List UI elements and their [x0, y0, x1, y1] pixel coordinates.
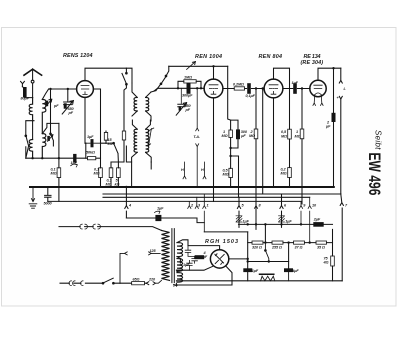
tube V1 anode wire right [93, 89, 100, 143]
anode coupling: wire V2 right [223, 88, 264, 90]
psu top rail R1 [239, 223, 333, 225]
tube V4 anode top wire [318, 68, 341, 80]
terminal jack 5 [237, 197, 240, 227]
grid wire into V2 [154, 88, 204, 91]
mains wire upper [59, 227, 162, 231]
resistor column a under switch [100, 158, 102, 187]
loudspeaker jack lower [339, 96, 342, 194]
rail y197.3 [103, 196, 310, 198]
resistor 255ohm [272, 241, 283, 244]
potentiometer zigzag [260, 273, 274, 275]
svg-text:65Ω: 65Ω [133, 278, 140, 282]
wire line A left end down [85, 143, 87, 158]
capacitor blob V3-V4 [293, 85, 297, 92]
terminal jack 2 [188, 201, 191, 208]
wire coil secondary top to grid line [42, 89, 48, 99]
tube V2 REN1004 envelope [204, 79, 223, 98]
antenna coil T1 primary [29, 98, 32, 121]
wire y261.5 [248, 261, 289, 263]
resistor 0.1M under V1 [58, 123, 60, 201]
wire ift lower bottoms [126, 146, 151, 187]
bracket wire around tuned coil [26, 121, 34, 159]
svg-text:1µF: 1µF [157, 207, 164, 211]
resistor 0.5M bias bottom [229, 168, 233, 177]
capacitor 4uF blob mid [286, 268, 291, 272]
svg-text:1µF: 1µF [87, 135, 94, 139]
svg-text:4Ω: 4Ω [323, 261, 329, 265]
IF transformer lower right winding [146, 129, 149, 152]
tube V5 RGH1503 envelope [210, 250, 228, 268]
switch S2 above resistors [111, 143, 118, 168]
svg-text:MΩ: MΩ [281, 172, 287, 176]
terminal jack 6 [280, 194, 283, 227]
variable arrow on chassis blob [71, 164, 78, 167]
capacitor 2uF series blob on R1 [316, 222, 322, 227]
capacitor blob in coupling line [247, 85, 251, 92]
IF transformer lower left winding [134, 129, 137, 152]
rectifier bottom loop [176, 267, 232, 285]
terminal jack 1 [203, 194, 206, 232]
svg-text:Seibt: Seibt [374, 130, 383, 150]
grid wire to tube V1 [49, 88, 77, 90]
svg-text:300µF: 300µF [182, 93, 193, 97]
rail y201.4 [48, 200, 302, 202]
resistor 320ohm [252, 241, 263, 244]
trimmer capacitor arrow 1 [45, 99, 51, 107]
capacitor 300uF blob in grid line [187, 85, 191, 92]
tube V3 electrodes [269, 85, 278, 94]
svg-text:320 Ω: 320 Ω [252, 245, 262, 249]
svg-text:pF: pF [185, 108, 191, 112]
resistor vertical right psu [332, 229, 334, 280]
wire upper ift left top [126, 68, 132, 83]
capacitor 1uF hatched below jack6 [279, 216, 285, 222]
wire V3 to V4 grid [283, 88, 310, 90]
wire switch S1 down [111, 84, 126, 162]
capacitor 300uF bias blob [236, 131, 240, 137]
mains switch [103, 278, 120, 283]
trimmer arrow on L2 [48, 135, 53, 142]
tube V1 RENS1204 envelope [77, 81, 94, 98]
mains wire lower [60, 282, 103, 284]
rectifier filament left wire [176, 266, 212, 270]
resistor 65ohm in mains [120, 282, 146, 284]
wire switch S3 to top rail 2 [166, 66, 169, 76]
svg-text:1: 1 [207, 204, 209, 208]
svg-text:REN 1004: REN 1004 [195, 54, 222, 60]
branch to jack 5 column [231, 156, 239, 197]
tube V4 filament legs [313, 95, 323, 106]
resistor 1M bias [229, 130, 233, 138]
wire top rail 2 right end down [228, 66, 231, 187]
svg-text:µF: µF [240, 134, 246, 138]
resistor 0.5M right of V3 [288, 129, 292, 139]
TA pickup terminals [196, 88, 199, 187]
tube V2 electrodes [209, 85, 218, 94]
terminal jack 10 [308, 197, 311, 242]
svg-text:(RE 304): (RE 304) [301, 60, 324, 66]
tube V3 cathode down [273, 98, 275, 187]
svg-text:35 Ω: 35 Ω [317, 245, 325, 249]
ground symbol [29, 187, 37, 208]
node top right [333, 68, 334, 69]
tube V1 electrodes [81, 86, 89, 95]
antenna coil T1 secondary [42, 99, 46, 133]
tube V3 REN804 envelope [264, 79, 283, 98]
svg-text:REN 804: REN 804 [259, 54, 283, 60]
svg-text:MΩ: MΩ [281, 134, 287, 138]
IF transformer lower leads [132, 120, 152, 162]
chassis line left [26, 157, 88, 159]
rectifier anode feed [188, 246, 220, 250]
resistor 50k horizontal [96, 157, 101, 159]
mains plug pair 1 [80, 224, 88, 229]
resistor column b [110, 178, 112, 187]
wire 50k right lead down [100, 143, 102, 158]
capacitor 5000 to ground [45, 187, 51, 201]
wire x265.4 rail to chain [264, 224, 266, 242]
svg-text:4µF: 4µF [291, 269, 299, 273]
wire grid drop x262.7 [262, 89, 264, 195]
secondary winding 3 [177, 273, 183, 283]
svg-text:H: H [201, 168, 204, 172]
wire V1 cathode down [84, 97, 86, 143]
capacitor blob in cluster [197, 255, 203, 259]
rectifier cathode wire right [229, 232, 248, 268]
resistor 0.2M in coupling line [234, 87, 244, 90]
svg-text:37 Ω: 37 Ω [295, 245, 303, 249]
tuned coil L2 right winding [42, 134, 46, 159]
svg-text:µF: µF [202, 255, 208, 259]
rail y194 [103, 193, 341, 195]
capacitor 80pF blob [23, 89, 27, 96]
tap 125 jack pair [120, 252, 160, 283]
trimmer capacitor 650pF drop [67, 89, 69, 101]
mains plug pair 2 [93, 224, 101, 229]
svg-text:2µF: 2µF [313, 218, 321, 222]
switch S1 top right of V1 [122, 68, 126, 84]
capacitor 1uF blob on y218 [155, 215, 161, 221]
capacitor 1uF blob on x247.7 [245, 268, 250, 272]
terminal jack 8 [254, 206, 257, 209]
svg-text:1µF: 1µF [243, 220, 250, 224]
svg-text:1µF: 1µF [285, 220, 292, 224]
terminal jack 7 [340, 194, 343, 281]
svg-text:1MΩ: 1MΩ [184, 75, 192, 79]
antenna terminal circle [31, 80, 34, 83]
loudspeaker jack upper [339, 68, 342, 83]
svg-text:1µF: 1µF [71, 161, 78, 165]
svg-text:1µF: 1µF [183, 263, 190, 267]
tube V2 cathode down [213, 98, 215, 201]
wire upper ift right top to switch S3 [151, 76, 166, 92]
trimmer 650pF below grid line [180, 88, 182, 103]
svg-text:kΩ: kΩ [108, 142, 113, 146]
svg-text:MΩ: MΩ [249, 134, 255, 138]
svg-text:pF: pF [53, 104, 59, 108]
trimmer capacitor 650pF symbol [62, 101, 73, 114]
resistor vertical x106 [105, 131, 107, 143]
band switch lever in bracket [26, 121, 33, 146]
svg-text:µF: µF [325, 125, 331, 129]
resistor 35ohm [316, 241, 327, 244]
svg-text:MΩ: MΩ [223, 173, 229, 177]
switch below chain [265, 243, 268, 262]
svg-text:MΩ: MΩ [94, 172, 100, 176]
tube V2 top stub [213, 66, 215, 79]
svg-text:MΩ: MΩ [51, 172, 57, 176]
blob capacitor on chassis line [73, 156, 76, 161]
svg-text:80pF: 80pF [21, 97, 30, 101]
IF transformer upper leads [132, 83, 151, 121]
svg-text:0,1µF: 0,1µF [246, 94, 256, 98]
svg-text:220: 220 [148, 278, 156, 282]
secondary leads to rectifier [176, 240, 188, 286]
svg-text:RGH 1503: RGH 1503 [205, 239, 238, 245]
tube V5 electrodes [215, 254, 224, 265]
svg-text:1µF: 1µF [292, 81, 299, 85]
transformer core lines [172, 229, 174, 283]
earth hook terminal [21, 81, 25, 86]
wire line A extension [85, 142, 106, 144]
capacitor 4uF plates [185, 246, 194, 259]
transformer primary zigzag [162, 230, 170, 280]
tube V1 top cap wire [85, 68, 126, 80]
terminal jack 9 [299, 206, 302, 225]
transformer bottom clips [173, 284, 176, 287]
mains plug pair 3 [69, 281, 83, 286]
tap 220 jack pair [146, 280, 161, 284]
tube V4 RE134 envelope [310, 80, 326, 96]
psu bottom rail [176, 280, 342, 282]
svg-text:EW 496: EW 496 [365, 153, 383, 196]
tuned coil L2 left winding [29, 140, 32, 159]
resistor 1M bridge over capacitor [178, 81, 201, 88]
resistor 0.2M lower right column [288, 168, 292, 178]
svg-text:1µF: 1µF [252, 269, 259, 273]
trimmer arrow on top rail 2 [187, 62, 196, 70]
arrow over 1uF blob [154, 211, 160, 214]
svg-text:T.A.: T.A. [193, 135, 200, 139]
wire L2 top lead to resistor column [42, 123, 59, 133]
wire line A to switch S2 [106, 142, 114, 144]
resistor 37ohm [294, 241, 305, 244]
resistor 1M under V4 grid [301, 89, 303, 205]
svg-text:MΩ: MΩ [106, 182, 112, 186]
resistor column c [117, 162, 119, 187]
terminal jack 3 [195, 197, 198, 208]
tie bottom of bias network [231, 137, 238, 148]
trimmer arrow through lower ift [148, 128, 154, 146]
heater hook terminals H [183, 162, 206, 179]
wire chain junction drops [288, 243, 290, 269]
tube V4 electrodes triode [314, 85, 322, 94]
trimmer capacitor drop 1 [51, 89, 54, 146]
svg-text:50kΩ: 50kΩ [86, 151, 95, 155]
wire y218.5 step to psu [189, 218, 248, 232]
node grid junction 1 [50, 88, 51, 89]
top rail 2 with trimmer [169, 65, 228, 67]
secondary winding 1 [177, 243, 183, 257]
secondary winding 2 [177, 259, 183, 272]
svg-text:MΩ: MΩ [295, 134, 301, 138]
capacitor 1uF plates lower [187, 259, 198, 271]
svg-text:5000: 5000 [44, 202, 53, 206]
IF transformer upper left winding [134, 97, 137, 111]
capacitor 1uF in line A [86, 140, 101, 146]
resistor in S1 column [122, 131, 125, 140]
terminal jack 4 [125, 187, 128, 218]
capacitor 2uF blob on x333.5 [332, 115, 336, 120]
svg-text:H: H [181, 168, 184, 172]
node grid junction 2 [67, 88, 68, 89]
tie top of bias network [231, 120, 238, 131]
svg-text:0,2MΩ: 0,2MΩ [233, 82, 244, 86]
chassis bus thick [30, 186, 334, 188]
wire y218 with 1uF blob [126, 217, 188, 219]
antenna [24, 69, 42, 75]
svg-text:pF: pF [68, 111, 74, 115]
capacitor 1uF hatched below jack5 [236, 216, 242, 222]
tube V3 anode top wire [274, 68, 290, 129]
wire x333.5 down to bus [333, 68, 335, 187]
IF transformer upper right winding [146, 97, 149, 111]
antenna mast wire [32, 69, 34, 97]
svg-text:MΩ: MΩ [222, 134, 228, 138]
svg-text:kΩ: kΩ [115, 182, 120, 186]
resistor 2M under coupling [255, 89, 257, 230]
svg-text:255 Ω: 255 Ω [271, 245, 282, 249]
resistor chain line [248, 242, 333, 244]
svg-text:RENS 1204: RENS 1204 [63, 53, 93, 59]
svg-text:125: 125 [150, 249, 157, 253]
wire cap to coil node [22, 87, 32, 98]
